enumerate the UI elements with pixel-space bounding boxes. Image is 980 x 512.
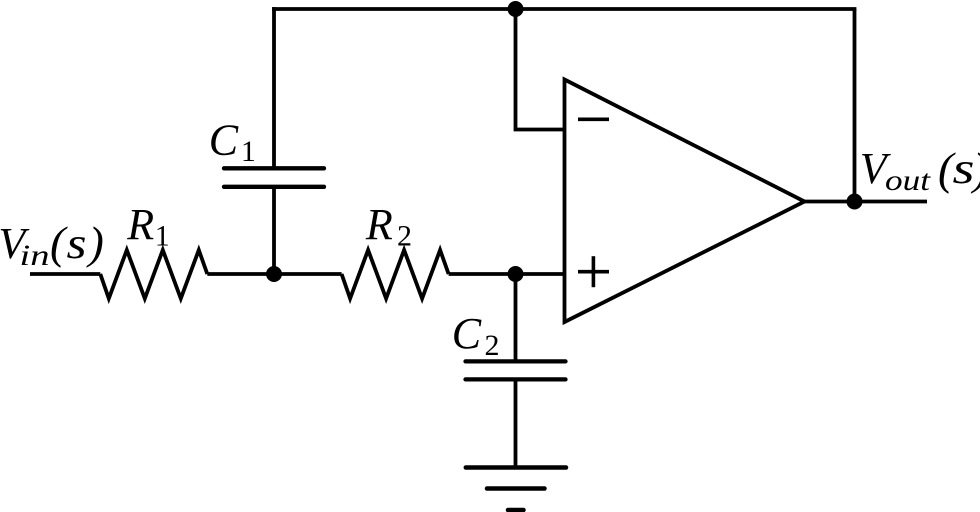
output junction dot	[847, 194, 863, 210]
wire: top rail	[272, 7, 856, 11]
svg-text:out: out	[885, 164, 931, 197]
wire: R2 to node B	[449, 272, 516, 276]
wire: C1 up to top rail	[272, 7, 276, 168]
wire: feedback vertical right side	[853, 9, 857, 202]
resistor R2	[342, 250, 449, 299]
junction dot: top rail / feedback tap	[508, 1, 524, 17]
svg-text:): )	[86, 217, 104, 268]
op-amp U1 triangle	[565, 80, 805, 323]
wire: C2 down to ground	[514, 379, 518, 467]
svg-text:s: s	[953, 144, 975, 193]
label C2	[452, 309, 500, 362]
wire: R1 to node A	[207, 272, 274, 276]
label R1	[126, 200, 169, 253]
op-amp - input marker	[578, 118, 609, 122]
svg-text:1: 1	[241, 135, 256, 168]
svg-text:C: C	[452, 309, 482, 358]
wire: node B to op-amp + input	[516, 272, 565, 276]
svg-text:2: 2	[485, 329, 500, 362]
label C1	[209, 116, 256, 169]
node A junction dot	[266, 266, 282, 282]
capacitor C2	[466, 361, 566, 379]
svg-text:1: 1	[155, 220, 170, 253]
wire: output lead to Vout	[855, 200, 928, 204]
svg-text:2: 2	[397, 220, 412, 253]
svg-text:in: in	[20, 239, 50, 272]
svg-text:s: s	[67, 219, 87, 268]
wire: node B down to C2	[514, 274, 518, 361]
label Vin(s)	[0, 217, 104, 272]
svg-text:R: R	[126, 200, 154, 249]
wire: feedback tap down to - input	[516, 9, 565, 130]
resistor R1	[100, 250, 207, 299]
node B junction dot	[508, 266, 524, 282]
wire: node A up to C1	[272, 187, 276, 274]
wire: Vin input lead	[30, 272, 100, 276]
op-amp + input marker	[578, 256, 609, 287]
capacitor C1	[224, 168, 324, 187]
label Vout(s)	[860, 143, 980, 197]
svg-text:C: C	[209, 116, 239, 165]
svg-text:(: (	[50, 217, 68, 268]
wire: op-amp output to junction	[805, 200, 855, 204]
ground symbol	[466, 468, 566, 511]
wire: node A to R2	[274, 272, 342, 276]
label R2	[365, 200, 412, 253]
svg-text:R: R	[365, 200, 393, 249]
